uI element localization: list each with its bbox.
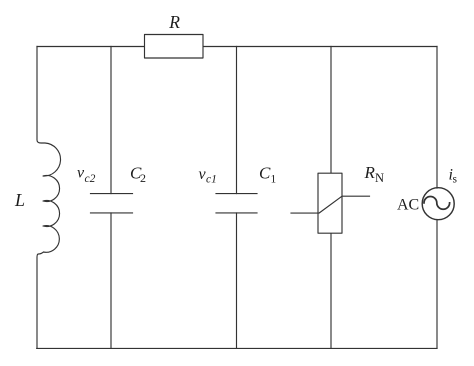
svg-text:R: R (168, 12, 180, 32)
svg-text:R: R (364, 163, 376, 182)
svg-text:1: 1 (271, 174, 277, 186)
svg-text:L: L (14, 190, 25, 210)
svg-text:2: 2 (140, 171, 146, 185)
svg-text:C: C (259, 164, 271, 183)
svg-text:c2: c2 (85, 173, 96, 185)
svg-text:AC: AC (397, 197, 419, 214)
svg-text:N: N (375, 171, 384, 185)
svg-text:s: s (453, 174, 458, 186)
svg-text:c1: c1 (206, 174, 217, 186)
